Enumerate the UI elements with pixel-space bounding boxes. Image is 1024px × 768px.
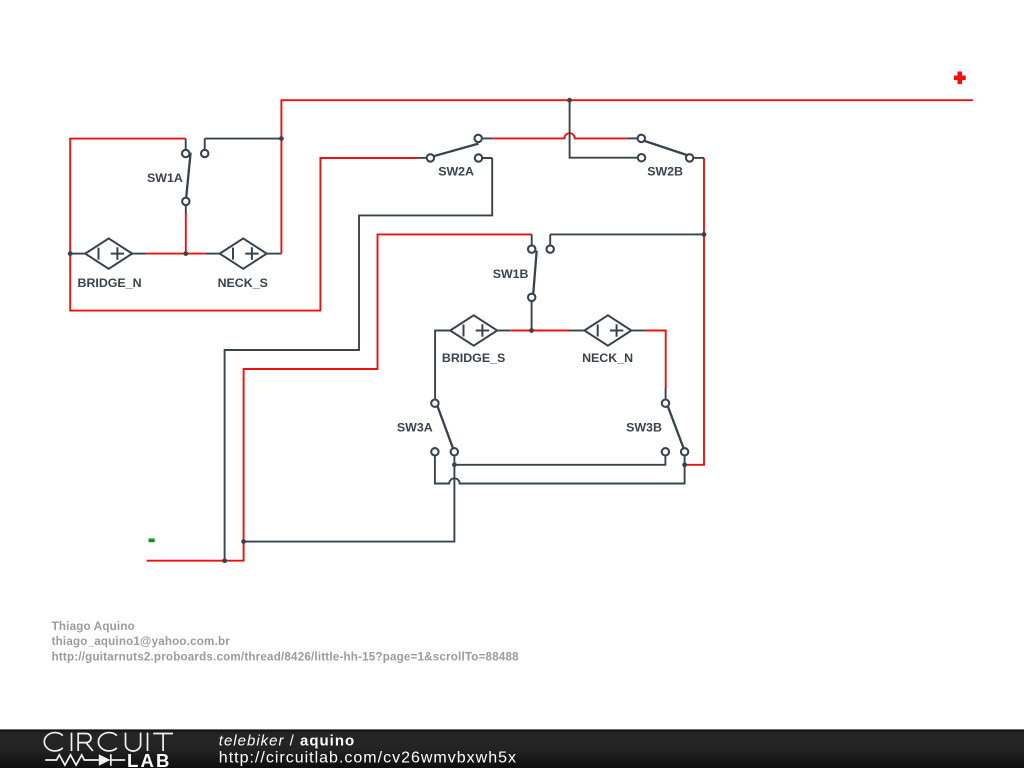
- wire SW2A bottom throw long path to bottom junction (dark): [225, 158, 493, 561]
- wire row2 red segment BRIDGE_S to NECK_N: [510, 330, 569, 332]
- svg-text:SW2B: SW2B: [647, 165, 683, 179]
- logo resistor-diode glyph: [45, 754, 125, 766]
- wire NECK_N right to SW3B top (red): [645, 331, 666, 389]
- node junction SW1B pole row2: [529, 328, 534, 333]
- node junction bottom red wire: [222, 558, 227, 563]
- svg-text:SW1A: SW1A: [147, 171, 183, 185]
- wire SW2A top throw to SW2B top throw with hop: [492, 133, 628, 138]
- wire stub NECK_N left terminal (dark): [569, 330, 584, 332]
- wire bottom dark from red vertical to SW3 throws (dark): [244, 452, 455, 542]
- source BRIDGE_S: [442, 315, 505, 365]
- wire SW2B common down to SW3B area (red): [685, 158, 704, 465]
- wire SW1B top-left throw to minus end (red): [147, 234, 532, 560]
- node junction SW1A top right corner: [279, 136, 284, 141]
- wire V+ top rail (red): [281, 100, 973, 253]
- svg-text:http://guitarnuts2.proboards.c: http://guitarnuts2.proboards.com/thread/…: [52, 651, 520, 664]
- svg-text:Thiago Aquino: Thiago Aquino: [52, 620, 135, 633]
- switch SW3B: [626, 400, 688, 456]
- wire BRIDGE_S left to SW3A common (dark): [435, 331, 450, 404]
- wire stub BRIDGE_N left terminal (dark): [70, 253, 85, 255]
- wire stub SW2B left throws (dark): [628, 137, 638, 139]
- wire junction drop from top rail to SW2B lower throw (dark): [570, 100, 638, 158]
- wire stub NECK_S left terminal (dark): [206, 253, 220, 255]
- node junction top rail: [567, 98, 572, 103]
- wire SW3A left throw to SW3B right throw with hop (dark): [435, 452, 685, 484]
- svg-text:http://circuitlab.com/cv26wmvb: http://circuitlab.com/cv26wmvbxwh5x: [219, 749, 517, 766]
- wire stub SW1B pole to row2 junction (dark): [531, 301, 533, 331]
- wire SW1B right throw to red vertical junction (dark): [550, 233, 704, 235]
- wire red box around BRIDGE_N/NECK_S: [70, 139, 417, 311]
- logo CIRCUIT drawn letters: [44, 733, 173, 751]
- svg-text:thiago_aquino1@yahoo.com.br: thiago_aquino1@yahoo.com.br: [52, 635, 231, 648]
- node V- minus marker: [149, 539, 155, 543]
- wire stub SW2A common (dark): [417, 157, 427, 159]
- wire row1 red segment between pickups: [146, 253, 205, 255]
- source BRIDGE_N: [78, 238, 142, 289]
- wire SW3A right throw to SW3B left throw (dark): [454, 452, 665, 465]
- switch SW2A: [427, 135, 483, 179]
- source NECK_N: [582, 315, 633, 365]
- wire stub SW1A left throw (dark): [185, 139, 187, 150]
- wire stub SW2A throws right (dark): [482, 138, 492, 158]
- node junction SW3B bottom right: [682, 462, 687, 467]
- node junction SW1A pole row1: [183, 251, 188, 256]
- wire stub SW3B top common (dark): [665, 389, 667, 404]
- svg-text:BRIDGE_N: BRIDGE_N: [78, 276, 142, 290]
- node V+ plus marker: [954, 72, 966, 85]
- wire SW1A right throw to junction (dark): [205, 138, 282, 140]
- wire SW1A pole down red: [185, 213, 187, 254]
- wire stub NECK_S right to red vertical (dark): [267, 253, 282, 255]
- switch SW2B: [638, 135, 694, 179]
- svg-text:NECK_N: NECK_N: [582, 351, 633, 365]
- svg-text:LAB: LAB: [127, 750, 172, 768]
- wire stub SW1A pole bottom (dark): [185, 205, 187, 214]
- node junction SW1B wire meets red vertical: [702, 232, 707, 237]
- node junction BRIDGE_N left: [68, 251, 73, 256]
- svg-text:SW1B: SW1B: [493, 267, 529, 281]
- svg-text:BRIDGE_S: BRIDGE_S: [442, 351, 505, 365]
- svg-text:SW2A: SW2A: [438, 165, 474, 179]
- node junction red vertical/dark horizontal: [241, 539, 246, 544]
- svg-text:NECK_S: NECK_S: [218, 276, 268, 290]
- switch SW1B: [493, 245, 554, 301]
- svg-text:SW3B: SW3B: [626, 421, 662, 435]
- wire stub SW2B common right (dark): [693, 157, 704, 159]
- svg-text:SW3A: SW3A: [397, 421, 433, 435]
- node junction SW3A bottom right: [452, 462, 457, 467]
- wire stub BRIDGE_S right terminal (dark): [497, 330, 510, 332]
- svg-text:telebiker / aquino: telebiker / aquino: [219, 732, 355, 749]
- switch SW1A: [147, 150, 208, 205]
- switch SW3A: [397, 400, 458, 456]
- wire stub BRIDGE_N right terminal (dark): [132, 253, 146, 255]
- wire stub SW1B throws (dark): [532, 234, 551, 245]
- wire stub SW1A right throw (dark): [204, 139, 206, 150]
- wire stub NECK_N right terminal (dark): [631, 330, 645, 332]
- source NECK_S: [218, 238, 268, 289]
